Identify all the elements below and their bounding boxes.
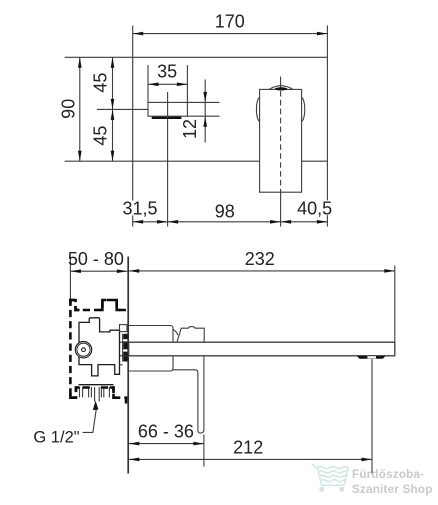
valve body outline (in-wall) bbox=[79, 318, 120, 376]
dimension texts bbox=[33, 12, 332, 458]
handle lever dome arc bbox=[269, 86, 293, 90]
cartridge screw circle outer bbox=[75, 342, 91, 358]
arrow 12 top bbox=[203, 92, 207, 103]
wall line bbox=[127, 257, 129, 474]
extension lines for 12 bbox=[187, 102, 219, 116]
wall plate right edge / extension line bbox=[326, 26, 328, 227]
cart handle bbox=[312, 464, 318, 468]
svg-text:170: 170 bbox=[215, 12, 245, 32]
svg-text:12: 12 bbox=[180, 119, 200, 139]
arrow 31,5 right bbox=[157, 220, 168, 224]
arrow 31,5 left bbox=[133, 220, 144, 224]
svg-text:45: 45 bbox=[91, 126, 111, 146]
cart basket sides and bottom bbox=[318, 469, 348, 486]
spout bar bottom line (side view) bbox=[129, 355, 395, 357]
arrow 90 bottom bbox=[78, 151, 82, 162]
dimension line 31,5 / 98 / 40,5 bbox=[133, 221, 328, 223]
svg-text:31,5: 31,5 bbox=[122, 199, 157, 219]
aerator dark band bbox=[357, 356, 386, 359]
svg-text:Szaniter Shop: Szaniter Shop bbox=[352, 483, 433, 496]
lever blade bbox=[173, 356, 204, 433]
cart wheel left bbox=[320, 487, 325, 492]
text halo 40,5 bbox=[299, 200, 331, 215]
spout outlet thick line bbox=[152, 117, 182, 119]
arrow 98 right bbox=[270, 220, 281, 224]
G 1/2 leader line bbox=[83, 410, 97, 433]
arrow 98 left bbox=[168, 220, 179, 224]
valve bottom ports bbox=[80, 387, 110, 402]
wall plate left edge / extension line bbox=[132, 26, 134, 227]
cart wheel right bbox=[339, 487, 344, 492]
cart wave 3 bbox=[320, 480, 345, 482]
dimension line 50-80 bbox=[70, 270, 127, 272]
rough-in box left extension line bbox=[69, 257, 71, 300]
dashed box corner stub bottom right bbox=[125, 398, 128, 404]
arrow 45b top bbox=[111, 109, 115, 120]
aerator light gap bbox=[367, 356, 376, 358]
thread stack left boundary bbox=[122, 334, 124, 362]
spout bar (side view, covers escutcheon middle) bbox=[129, 342, 395, 356]
dashed box left edge bbox=[69, 299, 72, 399]
arrow 90 top bbox=[78, 57, 82, 68]
arrow 212 right bbox=[362, 458, 373, 462]
handle centerline top solid bbox=[280, 77, 282, 91]
arrow 40,5 right bbox=[317, 220, 328, 224]
dashed box bottom edge bbox=[70, 388, 127, 398]
arrow 66-36 left bbox=[129, 442, 140, 446]
dimension line 12 bbox=[204, 80, 206, 143]
dimension line 90 bbox=[79, 57, 81, 161]
arrow 50-80 right bbox=[117, 269, 128, 273]
handle dome lens bbox=[275, 87, 287, 90]
spout rectangle (front view) bbox=[148, 102, 187, 116]
escutcheon (side view) bbox=[129, 326, 173, 372]
dimension line 66-36 bbox=[129, 443, 204, 445]
dimension line 35 bbox=[148, 83, 187, 85]
arrow 50-80 left bbox=[70, 269, 81, 273]
svg-text:66 - 36: 66 - 36 bbox=[138, 421, 194, 441]
dimension line 45/45 bbox=[112, 57, 114, 161]
svg-text:35: 35 bbox=[157, 62, 177, 82]
extension lines for 35 bbox=[148, 65, 187, 102]
arrow 40,5 left bbox=[281, 220, 292, 224]
svg-text:90: 90 bbox=[58, 99, 78, 119]
arrow G 1/2 bbox=[93, 401, 99, 410]
dashed box corner patches bbox=[70, 300, 120, 398]
rough-in dashed box bbox=[70, 299, 127, 399]
arrow 170 left bbox=[133, 32, 144, 36]
lever extension line bbox=[203, 435, 205, 467]
svg-text:40,5: 40,5 bbox=[297, 199, 332, 219]
arrow 35 right bbox=[177, 83, 188, 87]
housing gusset curve bbox=[173, 330, 178, 336]
arrow 170 right bbox=[317, 32, 328, 36]
arrow 45b bottom bbox=[111, 151, 115, 162]
shop logo cart bbox=[312, 464, 349, 485]
cart wave 2 bbox=[320, 475, 347, 477]
arrow 66-36 right bbox=[193, 442, 204, 446]
arrow 35 left bbox=[148, 83, 159, 87]
svg-text:212: 212 bbox=[233, 437, 263, 457]
svg-text:232: 232 bbox=[245, 249, 275, 269]
lever pivot housing bbox=[177, 327, 204, 343]
arrows bbox=[70, 32, 394, 461]
valve lower plate bbox=[79, 384, 114, 386]
wall-side stub lower bbox=[120, 364, 123, 366]
handle centerline bottom solid / extension bbox=[280, 192, 282, 226]
wall plate top edge (front view) bbox=[65, 56, 328, 58]
arrow 212 left bbox=[129, 458, 140, 462]
dimension line 170 bbox=[133, 33, 328, 35]
cartridge screw circle middle bbox=[77, 343, 90, 356]
svg-text:45: 45 bbox=[91, 73, 111, 93]
arrow 232 left bbox=[129, 269, 140, 273]
spout aerator extension line 212 bbox=[371, 359, 373, 474]
svg-text:G 1/2": G 1/2" bbox=[33, 428, 79, 446]
arrow 232 right bbox=[384, 269, 395, 273]
wall plate bottom edge (front view) bbox=[65, 160, 328, 162]
spout bar top line (side view) bbox=[129, 341, 395, 343]
handle left side bulge arc bbox=[256, 97, 259, 121]
horizontal centerline of plate bbox=[97, 108, 148, 110]
handle rectangle (front view) bbox=[260, 89, 302, 192]
dashed box top edge bbox=[70, 300, 127, 310]
svg-text:Fürdőszoba-: Fürdőszoba- bbox=[352, 468, 424, 481]
handle centerline dashed bbox=[280, 91, 282, 192]
pipe lines through wall bbox=[120, 342, 129, 356]
svg-text:50 - 80: 50 - 80 bbox=[68, 249, 124, 269]
arrow 45a top bbox=[111, 57, 115, 68]
dark connection blocks near wall (thread stack) bbox=[123, 334, 127, 362]
handle right side bulge arc bbox=[302, 97, 305, 121]
dimension line 212 bbox=[129, 458, 372, 460]
dimension line 232 bbox=[129, 270, 395, 272]
arrow 45a bottom bbox=[111, 99, 115, 110]
arrow 12 bottom bbox=[203, 116, 207, 127]
spout end extension line bbox=[394, 266, 396, 343]
text halo 31,5 bbox=[125, 200, 331, 215]
svg-text:98: 98 bbox=[215, 201, 235, 221]
spout vertical centerline / extension bbox=[167, 92, 169, 227]
cart rim wave bbox=[317, 467, 348, 469]
cartridge screw circle inner bbox=[82, 348, 86, 352]
wall-side stub upper bbox=[120, 325, 128, 332]
cart wave 1 bbox=[319, 471, 347, 473]
spout bar end edge bbox=[394, 342, 396, 356]
